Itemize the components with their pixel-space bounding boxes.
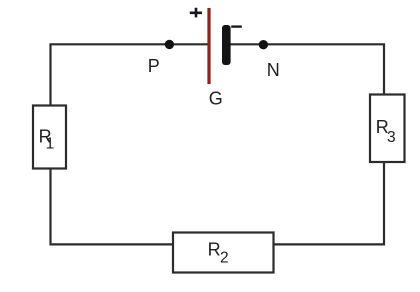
- node P: [165, 40, 174, 49]
- resistor R3: [370, 95, 405, 163]
- battery G negative plate (black bar): [222, 25, 231, 65]
- resistor R1: [33, 106, 66, 169]
- minus sign: [231, 25, 242, 27]
- resistor R2: [173, 233, 274, 273]
- battery G positive plate (red): [207, 8, 210, 84]
- svg-text:G: G: [209, 88, 223, 108]
- wire left lower + bottom-left: [51, 169, 173, 244]
- node N: [259, 40, 268, 49]
- svg-text:R: R: [208, 239, 221, 259]
- svg-text:N: N: [267, 60, 280, 80]
- svg-text:2: 2: [220, 249, 229, 266]
- plus sign: [190, 8, 202, 18]
- wire right upper + top-right: [228, 44, 384, 94]
- wire bottom-right + right lower: [274, 163, 384, 244]
- svg-text:1: 1: [46, 136, 55, 153]
- svg-text:3: 3: [387, 129, 396, 146]
- wire top-left + left upper: [51, 44, 209, 105]
- svg-text:P: P: [148, 56, 160, 76]
